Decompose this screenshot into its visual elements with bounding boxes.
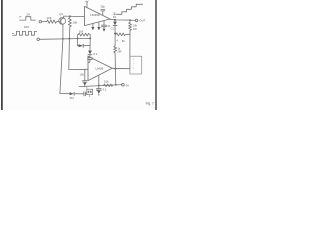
node U2 out junction [114,68,116,70]
capacitor C2 [88,58,93,63]
input pulse waveform glyph [22,17,36,20]
node U2 bottom feed [98,85,100,87]
svg-text:2W: 2W [117,50,121,54]
wire lower input [69,68,88,70]
resistor R3a (parallel with diode) [78,33,91,38]
wire long left column [60,39,63,94]
node R2/rail [69,38,71,40]
svg-text:LM390: LM390 [90,13,100,17]
svg-text:LM39: LM39 [96,66,104,70]
svg-text:0.1: 0.1 [103,88,107,92]
diode D3 branch [78,38,91,47]
svg-text:30p: 30p [100,4,105,8]
U2 output wire [112,67,130,69]
wire U2 bottom to rail [98,75,100,85]
resistor R5 on rail [103,84,113,87]
svg-text:1M: 1M [79,29,84,33]
svg-text:IN4: IN4 [70,96,75,100]
node emitter/rail [62,38,64,40]
svg-text:D1: D1 [113,15,117,19]
faint marks inside box [132,59,134,70]
node R3a left [77,38,79,40]
diode D2 [88,51,92,58]
wire from rail to lower input [68,39,71,70]
node bottom rail [115,84,117,86]
diode D1 [113,20,117,33]
ground box symbol [87,86,93,96]
svg-text:2V: 2V [26,13,30,17]
svg-text:0V: 0V [126,83,129,87]
svg-text:10k: 10k [47,16,52,20]
svg-text:Q1: Q1 [59,12,63,16]
diode D4 [70,92,84,95]
svg-text:OUT: OUT [139,19,146,23]
bottom rail wire [79,85,122,87]
wire [114,33,116,46]
left page column rule [1,0,3,110]
U1 output wire [110,19,135,20]
capacitor C6 with ground arrow [96,86,101,96]
node R2 top [69,15,71,17]
wire [58,20,61,22]
svg-text:Fig. 7: Fig. 7 [146,102,154,106]
clock square-wave glyph [14,31,36,35]
right page column rule [155,0,157,110]
resistor R3 horizontal [115,33,130,36]
svg-text:0.1: 0.1 [93,52,97,56]
svg-text:1W: 1W [133,27,137,31]
transistor Q1 [59,18,66,25]
resistor R2 [68,16,71,27]
svg-text:+V: +V [85,0,89,3]
capacitor C4 series [84,92,87,96]
node R3a right [89,38,91,40]
output terminal OUT2 [122,83,125,86]
resistor R4 vertical [114,46,117,53]
svg-text:100: 100 [24,25,29,29]
svg-text:10k: 10k [80,73,85,77]
U1 ground arrow b [97,22,100,30]
capacitor C5 with ground arrow [83,69,87,87]
input terminal IN2 [37,38,40,41]
wire down to U2 output node [114,53,116,69]
svg-text:10k: 10k [104,79,109,83]
node D1 top [114,19,116,21]
wire down to bottom rail [114,69,116,85]
faint box S1 [130,56,142,74]
resistor R1 [46,20,58,23]
wire emitter down long [62,25,64,39]
wire node down from rail [89,46,91,51]
capacitor C3 with ground [102,21,107,32]
svg-text:C1: C1 [111,27,115,31]
bottom branch wire [60,93,70,95]
resistor R6 vertical feedback [129,20,132,31]
U1 supply pin [86,2,88,8]
mid rail wire [40,37,91,40]
wire collector up to top rail [63,16,65,18]
U1 comp pin capacitor [101,10,105,16]
node R6 top [129,19,131,21]
output terminal OUT [135,19,138,22]
wire [42,21,46,23]
wire R2 to rail [68,27,70,39]
node R3 left [114,32,116,34]
staircase waveform glyph [116,4,142,14]
op-amp U1 [85,6,111,25]
wire feedback column [129,31,131,69]
svg-text:10k: 10k [72,20,77,24]
op-amp U2 [88,56,112,80]
U1 ground arrow a [91,24,94,31]
top rail wire to U1 input [64,15,85,18]
input terminal IN1 [39,20,42,23]
